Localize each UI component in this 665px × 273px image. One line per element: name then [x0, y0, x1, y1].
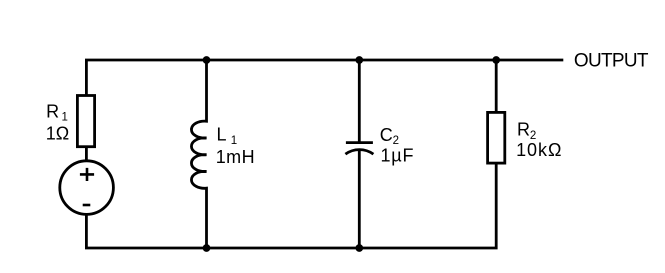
- junction node: top rail / L1: [203, 56, 211, 64]
- wire: L1 branch with inductor coil: [191, 60, 206, 248]
- voltage source minus sign: [83, 204, 91, 207]
- svg-text:R: R: [46, 102, 59, 122]
- svg-text:1Ω: 1Ω: [46, 124, 69, 144]
- wire: C2 branch upper: [358, 60, 361, 142]
- capacitor C2 curved bottom plate: [345, 150, 373, 155]
- svg-text:L: L: [217, 125, 227, 145]
- voltage source V1 circle: [60, 161, 114, 215]
- junction node: top rail / C2: [355, 56, 363, 64]
- svg-text:1: 1: [62, 112, 68, 124]
- resistor R1: [77, 96, 94, 147]
- junction node: top rail / R2: [492, 56, 500, 64]
- svg-text:10kΩ: 10kΩ: [516, 140, 562, 160]
- capacitor C2 top plate: [346, 141, 373, 144]
- junction node: bottom rail / L1: [203, 244, 211, 252]
- junction node: bottom rail / C2: [355, 244, 363, 252]
- svg-text:1mH: 1mH: [216, 147, 255, 167]
- resistor R2: [488, 112, 505, 163]
- svg-text:R: R: [517, 120, 530, 140]
- wire: R1 bottom to source V1 top: [85, 147, 88, 162]
- wire: R2 branch upper: [495, 60, 498, 112]
- voltage source plus sign: [80, 168, 94, 181]
- svg-text:C: C: [380, 125, 393, 145]
- wire: top rail from output end left and down to R1 top: [86, 60, 563, 95]
- svg-text:1µF: 1µF: [381, 145, 415, 165]
- svg-text:OUTPUT: OUTPUT: [574, 51, 649, 72]
- wire: source V1 bottom, bottom rail, up to R2 bottom: [86, 163, 496, 248]
- svg-text:1: 1: [231, 135, 237, 147]
- wire: C2 branch lower: [358, 150, 361, 248]
